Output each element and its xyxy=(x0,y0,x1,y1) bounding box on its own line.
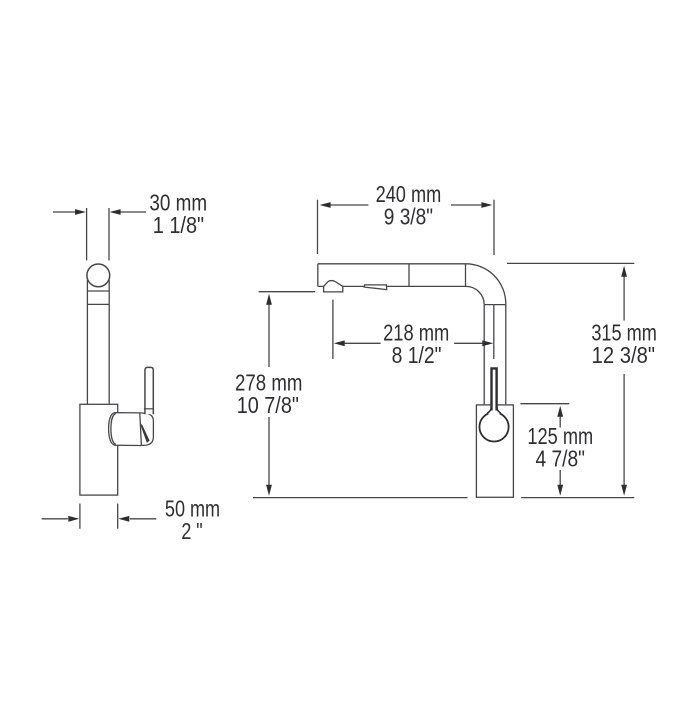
svg-text:10 7/8": 10 7/8" xyxy=(237,391,299,418)
svg-text:4 7/8": 4 7/8" xyxy=(536,446,585,472)
svg-text:8 1/2": 8 1/2" xyxy=(392,342,442,368)
svg-text:12 3/8": 12 3/8" xyxy=(592,342,655,369)
svg-text:1 1/8": 1 1/8" xyxy=(153,211,204,238)
svg-text:2 ": 2 " xyxy=(181,519,202,545)
svg-text:9 3/8": 9 3/8" xyxy=(384,204,433,230)
